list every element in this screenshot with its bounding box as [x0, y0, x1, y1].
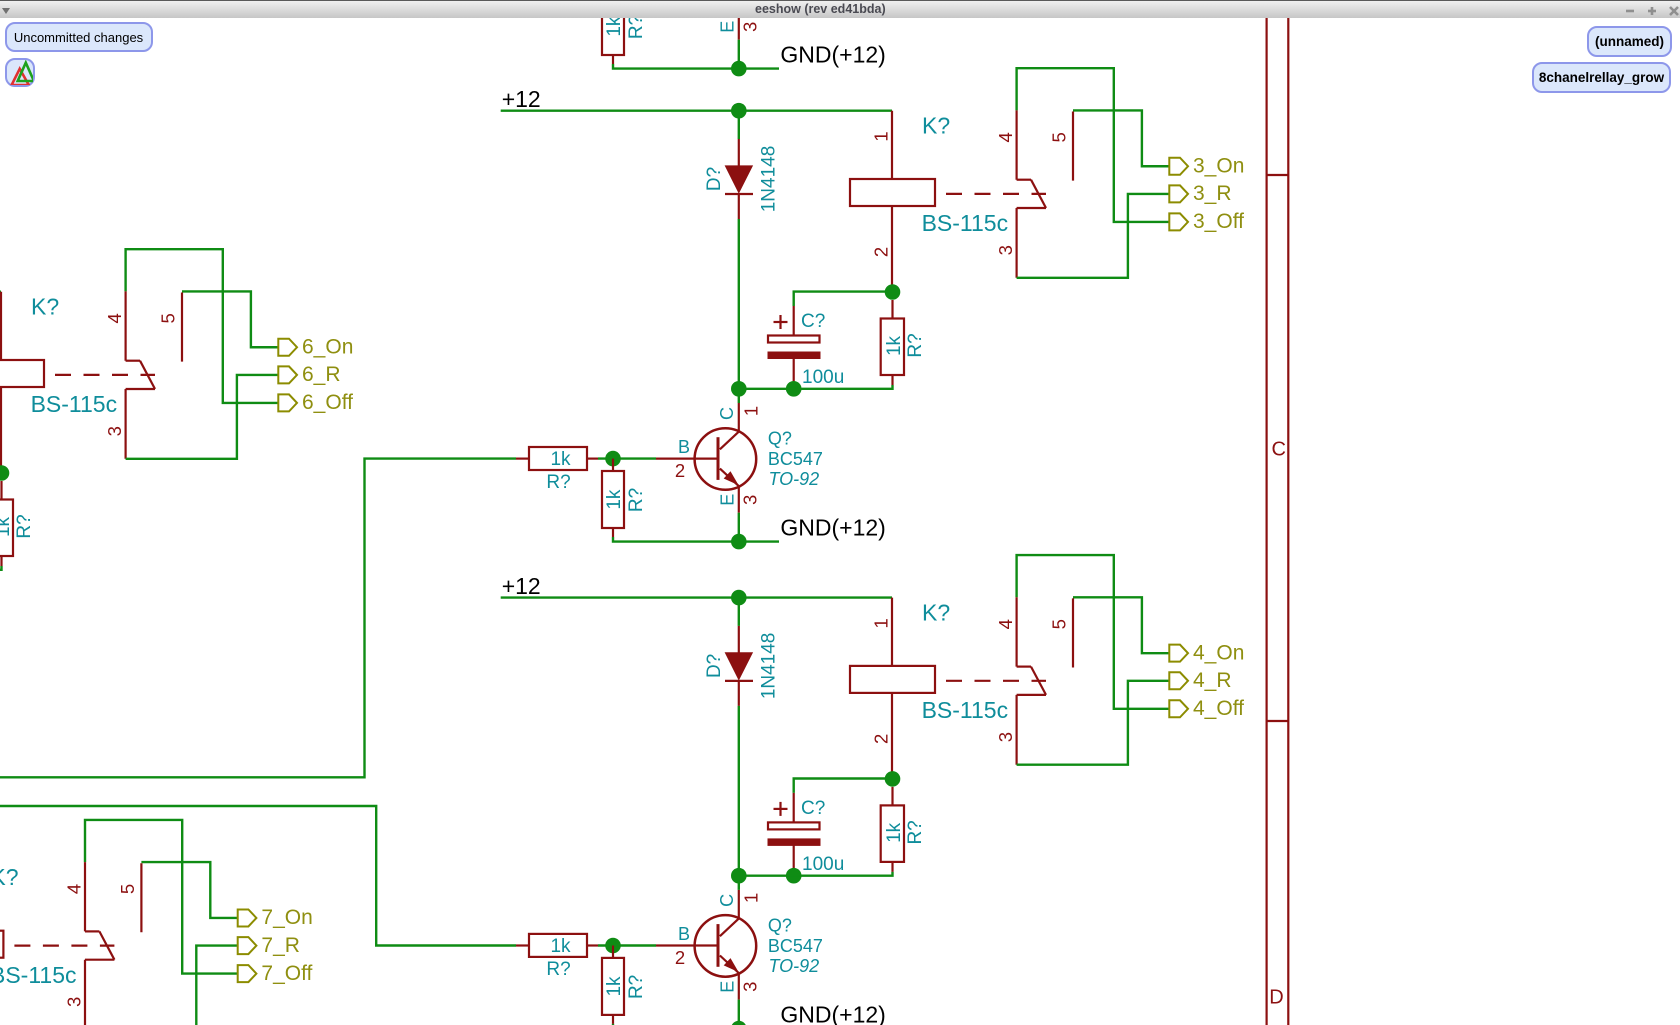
- svg-text:E: E: [717, 494, 737, 506]
- svg-text:1k: 1k: [884, 335, 905, 356]
- svg-text:1: 1: [871, 131, 892, 141]
- diode D? cathode lead (ch 4): [738, 681, 740, 706]
- svg-text:3: 3: [740, 22, 761, 32]
- junction coil-pin2 / C? / R? (ch 4): [885, 771, 901, 787]
- wire GND(+12) net (ch 4): [613, 1024, 779, 1025]
- junction GND(+12) (ch 2): [731, 61, 747, 77]
- resistor R? 1k (right) body (ch 4): [881, 805, 904, 862]
- global label 4_R (ch 4): [1169, 672, 1188, 689]
- relay contact pin 4 lead (ch 4): [1015, 597, 1017, 666]
- svg-text:7_Off: 7_Off: [261, 962, 312, 985]
- wire resistor/cap bottom to collector node (ch 6): [0, 566, 2, 570]
- resistor R? 1k (base-emitter) body (ch 4): [602, 958, 624, 1015]
- capacitor C? bottom lead (ch 3): [793, 359, 795, 383]
- transistor emitter diagonal (ch 3): [720, 469, 739, 487]
- svg-text:3_Off: 3_Off: [1193, 210, 1244, 233]
- svg-text:R?: R?: [546, 472, 570, 493]
- transistor base bar (ch 4): [717, 924, 720, 967]
- wire contact pin5 to 3_On (ch 3): [1073, 110, 1169, 166]
- svg-text:TO-92: TO-92: [769, 956, 820, 976]
- svg-text:2: 2: [871, 734, 892, 744]
- svg-text:5: 5: [1048, 619, 1069, 629]
- svg-text:+12: +12: [502, 86, 541, 112]
- svg-text:2: 2: [871, 247, 892, 257]
- resistor R? 1k (right) top lead (ch 4): [891, 787, 893, 806]
- svg-text:TO-92: TO-92: [769, 469, 820, 489]
- svg-text:4: 4: [64, 884, 85, 894]
- svg-text:E: E: [717, 981, 737, 993]
- resistor R? 1k (base) body (ch 4): [529, 934, 587, 957]
- relay contact switch symbol (ch 3): [1017, 179, 1031, 181]
- wire contact pin3 to 4_R (ch 4): [1017, 681, 1170, 765]
- global label 4_Off (ch 4): [1169, 700, 1188, 717]
- svg-text:1N4148: 1N4148: [758, 633, 779, 700]
- svg-text:R?: R?: [905, 820, 926, 844]
- diode D? triangle (ch 4): [725, 653, 752, 680]
- svg-text:3: 3: [104, 426, 125, 436]
- svg-text:3: 3: [995, 732, 1016, 742]
- transistor emitter diagonal (ch 4): [720, 956, 739, 974]
- sheet border frame right: [1265, 18, 1267, 1025]
- resistor R? (base) right lead (ch 3): [587, 458, 598, 460]
- relay contact switch symbol (ch 7): [85, 930, 99, 932]
- svg-text:2: 2: [675, 947, 685, 968]
- svg-text:BS-115c: BS-115c: [922, 697, 1009, 723]
- wire +12 to diode D? (ch 4): [738, 598, 740, 626]
- relay contact pin 3 lead (ch 6): [124, 389, 126, 459]
- svg-text:4: 4: [104, 313, 125, 323]
- wire resistor/cap bottom to collector node (ch 4): [739, 872, 893, 876]
- svg-text:1k: 1k: [884, 822, 905, 843]
- wire resistor/cap bottom to collector node (ch 3): [739, 385, 893, 389]
- transistor Q? BC547 (ch 4): [695, 915, 757, 977]
- wire contact pin5 to 4_On (ch 4): [1073, 597, 1169, 653]
- transistor emitter lead (ch 3): [738, 487, 740, 513]
- global label 4_On (ch 4): [1169, 645, 1188, 662]
- button Uncommitted changes: [5, 22, 153, 52]
- relay K? pin 1 lead (ch 6): [0, 292, 2, 360]
- resistor R? 1k (base) body (ch 3): [529, 447, 587, 470]
- svg-text:C: C: [1271, 439, 1285, 461]
- svg-text:K?: K?: [0, 864, 19, 890]
- wire contact pin4 to 7_Off (ch 7): [85, 820, 238, 974]
- svg-text:1k: 1k: [550, 936, 571, 957]
- svg-text:4: 4: [995, 619, 1016, 629]
- relay contact pin 4 lead (ch 7): [84, 862, 86, 931]
- transistor emitter arrow (ch 4): [724, 958, 739, 972]
- relay contact pin 3 lead (ch 4): [1015, 695, 1017, 765]
- svg-text:D: D: [1269, 987, 1283, 1009]
- svg-text:B: B: [678, 437, 690, 457]
- svg-text:+12: +12: [502, 573, 541, 599]
- resistor R? 1k (right) body (ch 6): [0, 500, 13, 557]
- relay K? pin 2 lead (ch 3): [891, 206, 893, 292]
- capacitor C? negative plate (ch 3): [768, 352, 820, 359]
- relay K? coil body (ch 6): [0, 360, 44, 387]
- transistor base bar (ch 2): [717, 0, 720, 7]
- transistor collector lead (ch 3): [738, 403, 740, 431]
- svg-text:1: 1: [0, 312, 1, 322]
- junction +12/diode (ch 3): [731, 103, 747, 119]
- resistor R? 1k (base-emitter) top lead (ch 4): [612, 946, 614, 958]
- transistor collector diagonal (ch 3): [720, 431, 739, 449]
- wire emitter to GND(+12) (ch 3): [738, 513, 740, 542]
- svg-text:1: 1: [741, 406, 762, 416]
- svg-text:R?: R?: [626, 975, 647, 999]
- resistor R? 1k (base) left lead (ch 3): [516, 458, 529, 460]
- relay K? pin 2 lead (ch 4): [891, 693, 893, 779]
- svg-text:BC547: BC547: [768, 936, 823, 956]
- wire emitter to GND(+12) (ch 2): [738, 40, 740, 69]
- svg-text:BS-115c: BS-115c: [0, 962, 77, 988]
- wire +12 rail (ch 3): [501, 109, 892, 111]
- resistor R? 1k (base-emitter) body (ch 3): [602, 471, 624, 528]
- relay contact pin 3 lead (ch 3): [1015, 208, 1017, 278]
- svg-text:6_Off: 6_Off: [302, 391, 353, 414]
- resistor R? (right) bottom lead (ch 3): [891, 375, 893, 385]
- svg-text:D?: D?: [704, 654, 725, 678]
- wire contact pin5 to 7_On (ch 7): [141, 862, 237, 918]
- resistor R? (base-emitter) bottom lead (ch 2): [612, 55, 614, 64]
- wire emitter to GND(+12) (ch 4): [738, 1000, 740, 1025]
- svg-text:1: 1: [741, 893, 762, 903]
- global label 6_Off (ch 6): [278, 394, 297, 411]
- svg-text:C: C: [717, 894, 737, 907]
- wire contact pin3 to 3_R (ch 3): [1017, 194, 1170, 278]
- svg-text:K?: K?: [922, 599, 950, 625]
- svg-text:E: E: [717, 21, 737, 33]
- svg-text:2: 2: [675, 460, 685, 481]
- svg-text:4_On: 4_On: [1193, 641, 1244, 664]
- junction collector node (ch 3): [731, 381, 747, 397]
- svg-text:3: 3: [740, 495, 761, 505]
- wire coil to capacitor (ch 6): [0, 473, 2, 487]
- wire base feed for channel 3: [0, 459, 516, 778]
- transistor emitter arrow (ch 2): [724, 0, 739, 12]
- relay contact pin 3 lead (ch 7): [84, 960, 86, 1025]
- capacitor C? plus sign (ch 4): [774, 808, 788, 810]
- svg-text:1k: 1k: [0, 516, 14, 537]
- junction base node (ch 3): [605, 451, 621, 467]
- transistor collector lead (ch 4): [738, 890, 740, 918]
- svg-text:BC547: BC547: [768, 449, 823, 469]
- svg-text:C: C: [717, 407, 737, 420]
- svg-text:R?: R?: [14, 514, 35, 538]
- relay contact pin 5 lead (ch 7): [140, 863, 142, 932]
- dashed link coil to contact (ch 3): [946, 193, 1046, 195]
- svg-text:3_R: 3_R: [1193, 182, 1232, 205]
- svg-text:3_On: 3_On: [1193, 154, 1244, 177]
- svg-text:7_R: 7_R: [261, 934, 300, 957]
- svg-text:5: 5: [117, 884, 138, 894]
- global label 7_R (ch 7): [238, 937, 257, 954]
- svg-text:100u: 100u: [802, 854, 844, 875]
- wire base node (ch 4): [598, 944, 656, 946]
- wire contact pin3 to 7_R (ch 7): [85, 946, 238, 1025]
- transistor Q? BC547 (ch 3): [695, 428, 757, 490]
- wire base feed for channel 4: [0, 806, 516, 946]
- relay K? pin 1 lead (ch 4): [891, 598, 893, 666]
- junction GND(+12) (ch 3): [731, 534, 747, 550]
- resistor R? (right) bottom lead (ch 4): [891, 862, 893, 872]
- svg-text:GND(+12): GND(+12): [780, 1002, 885, 1025]
- junction GND(+12) (ch 4): [731, 1021, 747, 1025]
- transistor base lead (ch 4): [656, 944, 718, 946]
- svg-text:1N4148: 1N4148: [758, 146, 779, 213]
- wire contact pin4 to 3_Off (ch 3): [1017, 68, 1170, 222]
- global label 3_On (ch 3): [1169, 158, 1188, 175]
- global label 6_R (ch 6): [278, 366, 297, 383]
- wire contact pin5 to 6_On (ch 6): [182, 291, 278, 347]
- relay contact pin 5 lead (ch 3): [1072, 112, 1074, 181]
- svg-text:3: 3: [64, 997, 85, 1007]
- transistor emitter lead (ch 4): [738, 974, 740, 1000]
- junction capacitor bottom (ch 3): [786, 381, 802, 397]
- wire contact pin3 to 6_R (ch 6): [126, 375, 279, 459]
- wire GND(+12) net (ch 3): [613, 537, 779, 542]
- svg-text:4_R: 4_R: [1193, 669, 1232, 692]
- global label 3_Off (ch 3): [1169, 213, 1188, 230]
- transistor base lead (ch 3): [656, 458, 718, 460]
- dashed link coil to contact (ch 4): [946, 680, 1046, 682]
- global label 7_On (ch 7): [238, 909, 257, 926]
- resistor R? 1k (right) top lead (ch 6): [0, 481, 2, 500]
- resistor R? (base-emitter) bottom lead (ch 3): [612, 528, 614, 537]
- capacitor C? bottom lead (ch 4): [793, 845, 795, 869]
- transistor base bar (ch 3): [717, 437, 720, 480]
- relay contact switch symbol (ch 6): [126, 360, 140, 362]
- wire diode cathode to collector node (ch 3): [738, 219, 740, 389]
- transistor emitter lead (ch 2): [738, 14, 740, 40]
- relay K? coil body (ch 3): [850, 179, 935, 206]
- sheet border row divider C/D: [1267, 174, 1289, 176]
- wire collector (ch 3): [738, 389, 740, 403]
- svg-text:BS-115c: BS-115c: [922, 210, 1009, 236]
- wire coil to capacitor (ch 3): [794, 292, 893, 306]
- svg-text:4: 4: [995, 132, 1016, 142]
- transistor emitter arrow (ch 3): [724, 471, 739, 485]
- svg-text:1k: 1k: [604, 489, 625, 510]
- dashed link coil to contact (ch 7): [14, 944, 114, 946]
- wire +12 to diode D? (ch 3): [738, 111, 740, 139]
- resistor R? 1k (right) top lead (ch 3): [891, 300, 893, 319]
- wire contact pin4 to 6_Off (ch 6): [126, 249, 279, 403]
- svg-text:6_On: 6_On: [302, 335, 353, 358]
- resistor R? 1k (base-emitter) top lead (ch 3): [612, 459, 614, 471]
- svg-text:GND(+12): GND(+12): [780, 515, 885, 541]
- svg-text:BS-115c: BS-115c: [31, 391, 118, 417]
- svg-text:Q?: Q?: [768, 916, 792, 936]
- svg-text:1k: 1k: [604, 16, 625, 37]
- transistor emitter diagonal (ch 2): [720, 0, 739, 14]
- svg-text:1k: 1k: [550, 449, 571, 470]
- capacitor C? top lead (ch 4): [793, 793, 795, 823]
- svg-text:D?: D?: [704, 167, 725, 191]
- capacitor C? positive plate (ch 3): [768, 336, 820, 343]
- wire +12 rail (ch 6): [0, 291, 1, 293]
- relay K? pin 1 lead (ch 3): [891, 111, 893, 179]
- button history icon: [5, 58, 35, 87]
- relay contact pin 5 lead (ch 4): [1072, 598, 1074, 667]
- capacitor C? plus sign (ch 3): [774, 321, 788, 323]
- capacitor C? positive plate (ch 4): [768, 822, 820, 829]
- transistor Q? BC547 (ch 2): [695, 0, 757, 17]
- capacitor C? top lead (ch 3): [793, 306, 795, 336]
- svg-text:3: 3: [995, 245, 1016, 255]
- svg-text:7_On: 7_On: [261, 906, 312, 929]
- junction +12/diode (ch 4): [731, 590, 747, 606]
- wire +12 rail (ch 4): [501, 596, 892, 598]
- global label 6_On (ch 6): [278, 339, 297, 356]
- wire contact pin4 to 4_Off (ch 4): [1017, 555, 1170, 709]
- relay K? pin 2 lead (ch 6): [0, 387, 2, 473]
- svg-text:2: 2: [0, 428, 1, 438]
- svg-text:C?: C?: [801, 311, 825, 332]
- svg-text:3: 3: [740, 982, 761, 992]
- svg-text:B: B: [678, 924, 690, 944]
- wire diode cathode to collector node (ch 4): [738, 706, 740, 876]
- junction base node (ch 4): [605, 938, 621, 954]
- svg-text:5: 5: [157, 313, 178, 323]
- svg-text:R?: R?: [626, 488, 647, 512]
- global label 3_R (ch 3): [1169, 185, 1188, 202]
- relay contact pin 4 lead (ch 6): [124, 291, 126, 360]
- diode D? cathode bar (ch 4): [725, 680, 753, 682]
- svg-text:5: 5: [1048, 132, 1069, 142]
- relay contact pin 5 lead (ch 6): [181, 293, 183, 362]
- relay K? coil body (ch 7): [0, 931, 3, 958]
- svg-text:R?: R?: [546, 959, 570, 980]
- resistor R? (right) bottom lead (ch 6): [0, 556, 2, 566]
- transistor collector diagonal (ch 4): [720, 918, 739, 936]
- resistor R? 1k (base) left lead (ch 4): [516, 944, 529, 946]
- diode D? anode lead (ch 4): [738, 626, 740, 653]
- diode D? cathode lead (ch 3): [738, 194, 740, 219]
- diode D? triangle (ch 3): [725, 166, 752, 193]
- junction collector node (ch 4): [731, 868, 747, 884]
- resistor R? (base-emitter) bottom lead (ch 4): [612, 1015, 614, 1024]
- svg-text:R?: R?: [626, 15, 647, 39]
- relay contact switch symbol (ch 4): [1017, 665, 1031, 667]
- window title bar: [0, 0, 1680, 18]
- relay K? coil body (ch 4): [850, 666, 935, 693]
- svg-text:4_Off: 4_Off: [1193, 697, 1244, 720]
- button 8chanelrellay_grow: [1532, 62, 1671, 93]
- svg-text:GND(+12): GND(+12): [780, 42, 885, 68]
- svg-text:K?: K?: [922, 112, 950, 138]
- svg-text:R?: R?: [905, 333, 926, 357]
- wire GND(+12) net (ch 2): [613, 64, 779, 69]
- svg-text:6_R: 6_R: [302, 363, 341, 386]
- resistor R? (base) right lead (ch 4): [587, 944, 598, 946]
- resistor R? 1k (right) body (ch 3): [881, 319, 904, 376]
- svg-text:C?: C?: [801, 798, 825, 819]
- diode D? anode lead (ch 3): [738, 139, 740, 166]
- svg-text:Q?: Q?: [768, 429, 792, 449]
- svg-text:1k: 1k: [604, 976, 625, 997]
- junction coil-pin2 / C? / R? (ch 6): [0, 465, 9, 481]
- global label 7_Off (ch 7): [238, 965, 257, 982]
- junction coil-pin2 / C? / R? (ch 3): [885, 284, 901, 300]
- button (unnamed): [1587, 26, 1672, 57]
- junction capacitor bottom (ch 4): [786, 868, 802, 884]
- svg-text:1: 1: [871, 618, 892, 628]
- relay contact pin 4 lead (ch 3): [1015, 110, 1017, 179]
- dashed link coil to contact (ch 6): [55, 374, 155, 376]
- wire collector (ch 4): [738, 876, 740, 890]
- svg-text:K?: K?: [31, 293, 59, 319]
- capacitor C? negative plate (ch 4): [768, 839, 820, 846]
- resistor R? 1k (base-emitter) body (ch 2): [602, 0, 624, 55]
- pane handle triangle: [2, 8, 10, 14]
- wire coil to capacitor (ch 4): [794, 779, 893, 793]
- svg-text:100u: 100u: [802, 367, 844, 388]
- diode D? cathode bar (ch 3): [725, 193, 753, 195]
- wire base node (ch 3): [598, 457, 656, 459]
